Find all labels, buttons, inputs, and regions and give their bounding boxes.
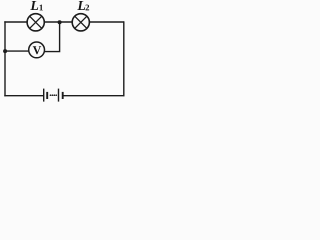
label L2 (77, 1, 89, 10)
battery BT1 (multi-cell with dots) (44, 89, 63, 102)
lamp L1 (27, 14, 44, 31)
node junction dot on left wire (3, 49, 7, 53)
wire bottom right segment (battery to corner) (63, 95, 125, 97)
battery long plate 1 (43, 89, 45, 102)
wire left side vertical (4, 21, 6, 96)
wire voltmeter right lead up to junction (44, 22, 60, 52)
lamp L2 (72, 14, 89, 31)
battery cell dots (50, 94, 52, 96)
wire right side vertical (123, 21, 125, 96)
node junction dot on top wire (58, 20, 62, 24)
label L1 (30, 1, 43, 10)
voltmeter V (meter U1) (29, 42, 45, 58)
wire voltmeter left lead (5, 50, 30, 52)
wire top side (full horizontal run) (4, 21, 124, 23)
battery short plate 1 (46, 92, 48, 99)
wire bottom left segment (corner to battery) (4, 95, 43, 97)
battery short plate 2 (62, 92, 64, 99)
battery long plate 2 (58, 89, 60, 102)
